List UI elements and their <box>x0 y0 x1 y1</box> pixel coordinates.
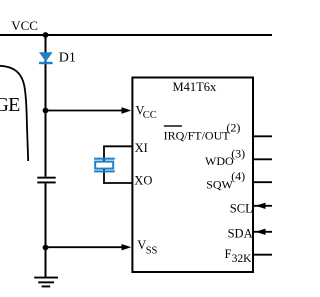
label D1 <box>59 50 76 65</box>
clipped label GE <box>0 94 20 116</box>
svg-text:XI: XI <box>135 141 148 155</box>
wire to VCC pin with arrow <box>46 107 132 113</box>
pin stub IRQ/FT/OUT (2) <box>253 135 272 137</box>
wire: XI stub <box>104 145 133 147</box>
net label VCC <box>11 18 38 33</box>
pin label XO <box>134 174 152 188</box>
crystal X1 <box>94 158 115 173</box>
svg-text:F: F <box>225 247 232 261</box>
pin stub SDA with input arrow <box>253 229 272 235</box>
svg-text:XO: XO <box>134 174 152 188</box>
svg-text:IRQ/FT/OUT: IRQ/FT/OUT <box>164 128 231 142</box>
svg-text:SQW: SQW <box>206 177 233 191</box>
clipped callout curve (left edge) <box>0 66 28 161</box>
svg-text:(4): (4) <box>231 169 245 183</box>
junction node at VSS pin wire <box>43 245 49 251</box>
IC part label M41T6x <box>173 80 218 94</box>
svg-text:SS: SS <box>146 246 158 257</box>
pin label XI <box>135 141 148 155</box>
svg-text:SDA: SDA <box>228 226 253 240</box>
svg-text:(2): (2) <box>226 120 240 134</box>
junction node at VCC pin wire <box>43 108 49 114</box>
pin label IRQ/FT/OUT with overline on IRQ and superscript (2) <box>164 120 241 142</box>
svg-text:M41T6x: M41T6x <box>173 80 218 94</box>
pin label WDO with superscript (3) <box>205 147 245 168</box>
diode D1 <box>39 52 53 64</box>
wire: vertical from capacitor to ground <box>45 183 47 277</box>
pin label VSS <box>137 238 157 257</box>
wire: main vertical from rail to capacitor <box>45 35 47 177</box>
svg-text:SCL: SCL <box>230 202 253 216</box>
pin label SDA <box>228 226 253 240</box>
capacitor C1 <box>37 177 55 184</box>
wire: XO stub <box>104 182 133 184</box>
pin stub WDO (3) <box>253 158 272 160</box>
pin stub SCL with input arrow <box>253 203 272 209</box>
wire to VSS pin with arrow <box>46 244 132 250</box>
wire: crystal vertical link <box>103 145 105 184</box>
pin label SCL <box>230 202 253 216</box>
pin stub SQW (4) <box>253 181 272 183</box>
svg-text:(3): (3) <box>231 147 245 161</box>
svg-text:WDO: WDO <box>205 154 234 168</box>
svg-text:32K: 32K <box>232 253 253 265</box>
pin label F32K <box>225 247 253 265</box>
junction node at VCC rail <box>43 32 49 38</box>
svg-text:VCC: VCC <box>11 18 38 33</box>
pin label VCC (pin 1 area) <box>136 103 157 121</box>
svg-text:CC: CC <box>143 110 157 121</box>
VCC power rail wire <box>0 34 272 36</box>
pin label SQW with superscript (4) <box>206 169 245 191</box>
pin stub F32K <box>253 254 272 256</box>
ground symbol <box>34 277 58 288</box>
svg-text:D1: D1 <box>59 50 76 65</box>
IC U1 M41T6x body <box>132 78 253 273</box>
svg-text:GE: GE <box>0 94 20 116</box>
